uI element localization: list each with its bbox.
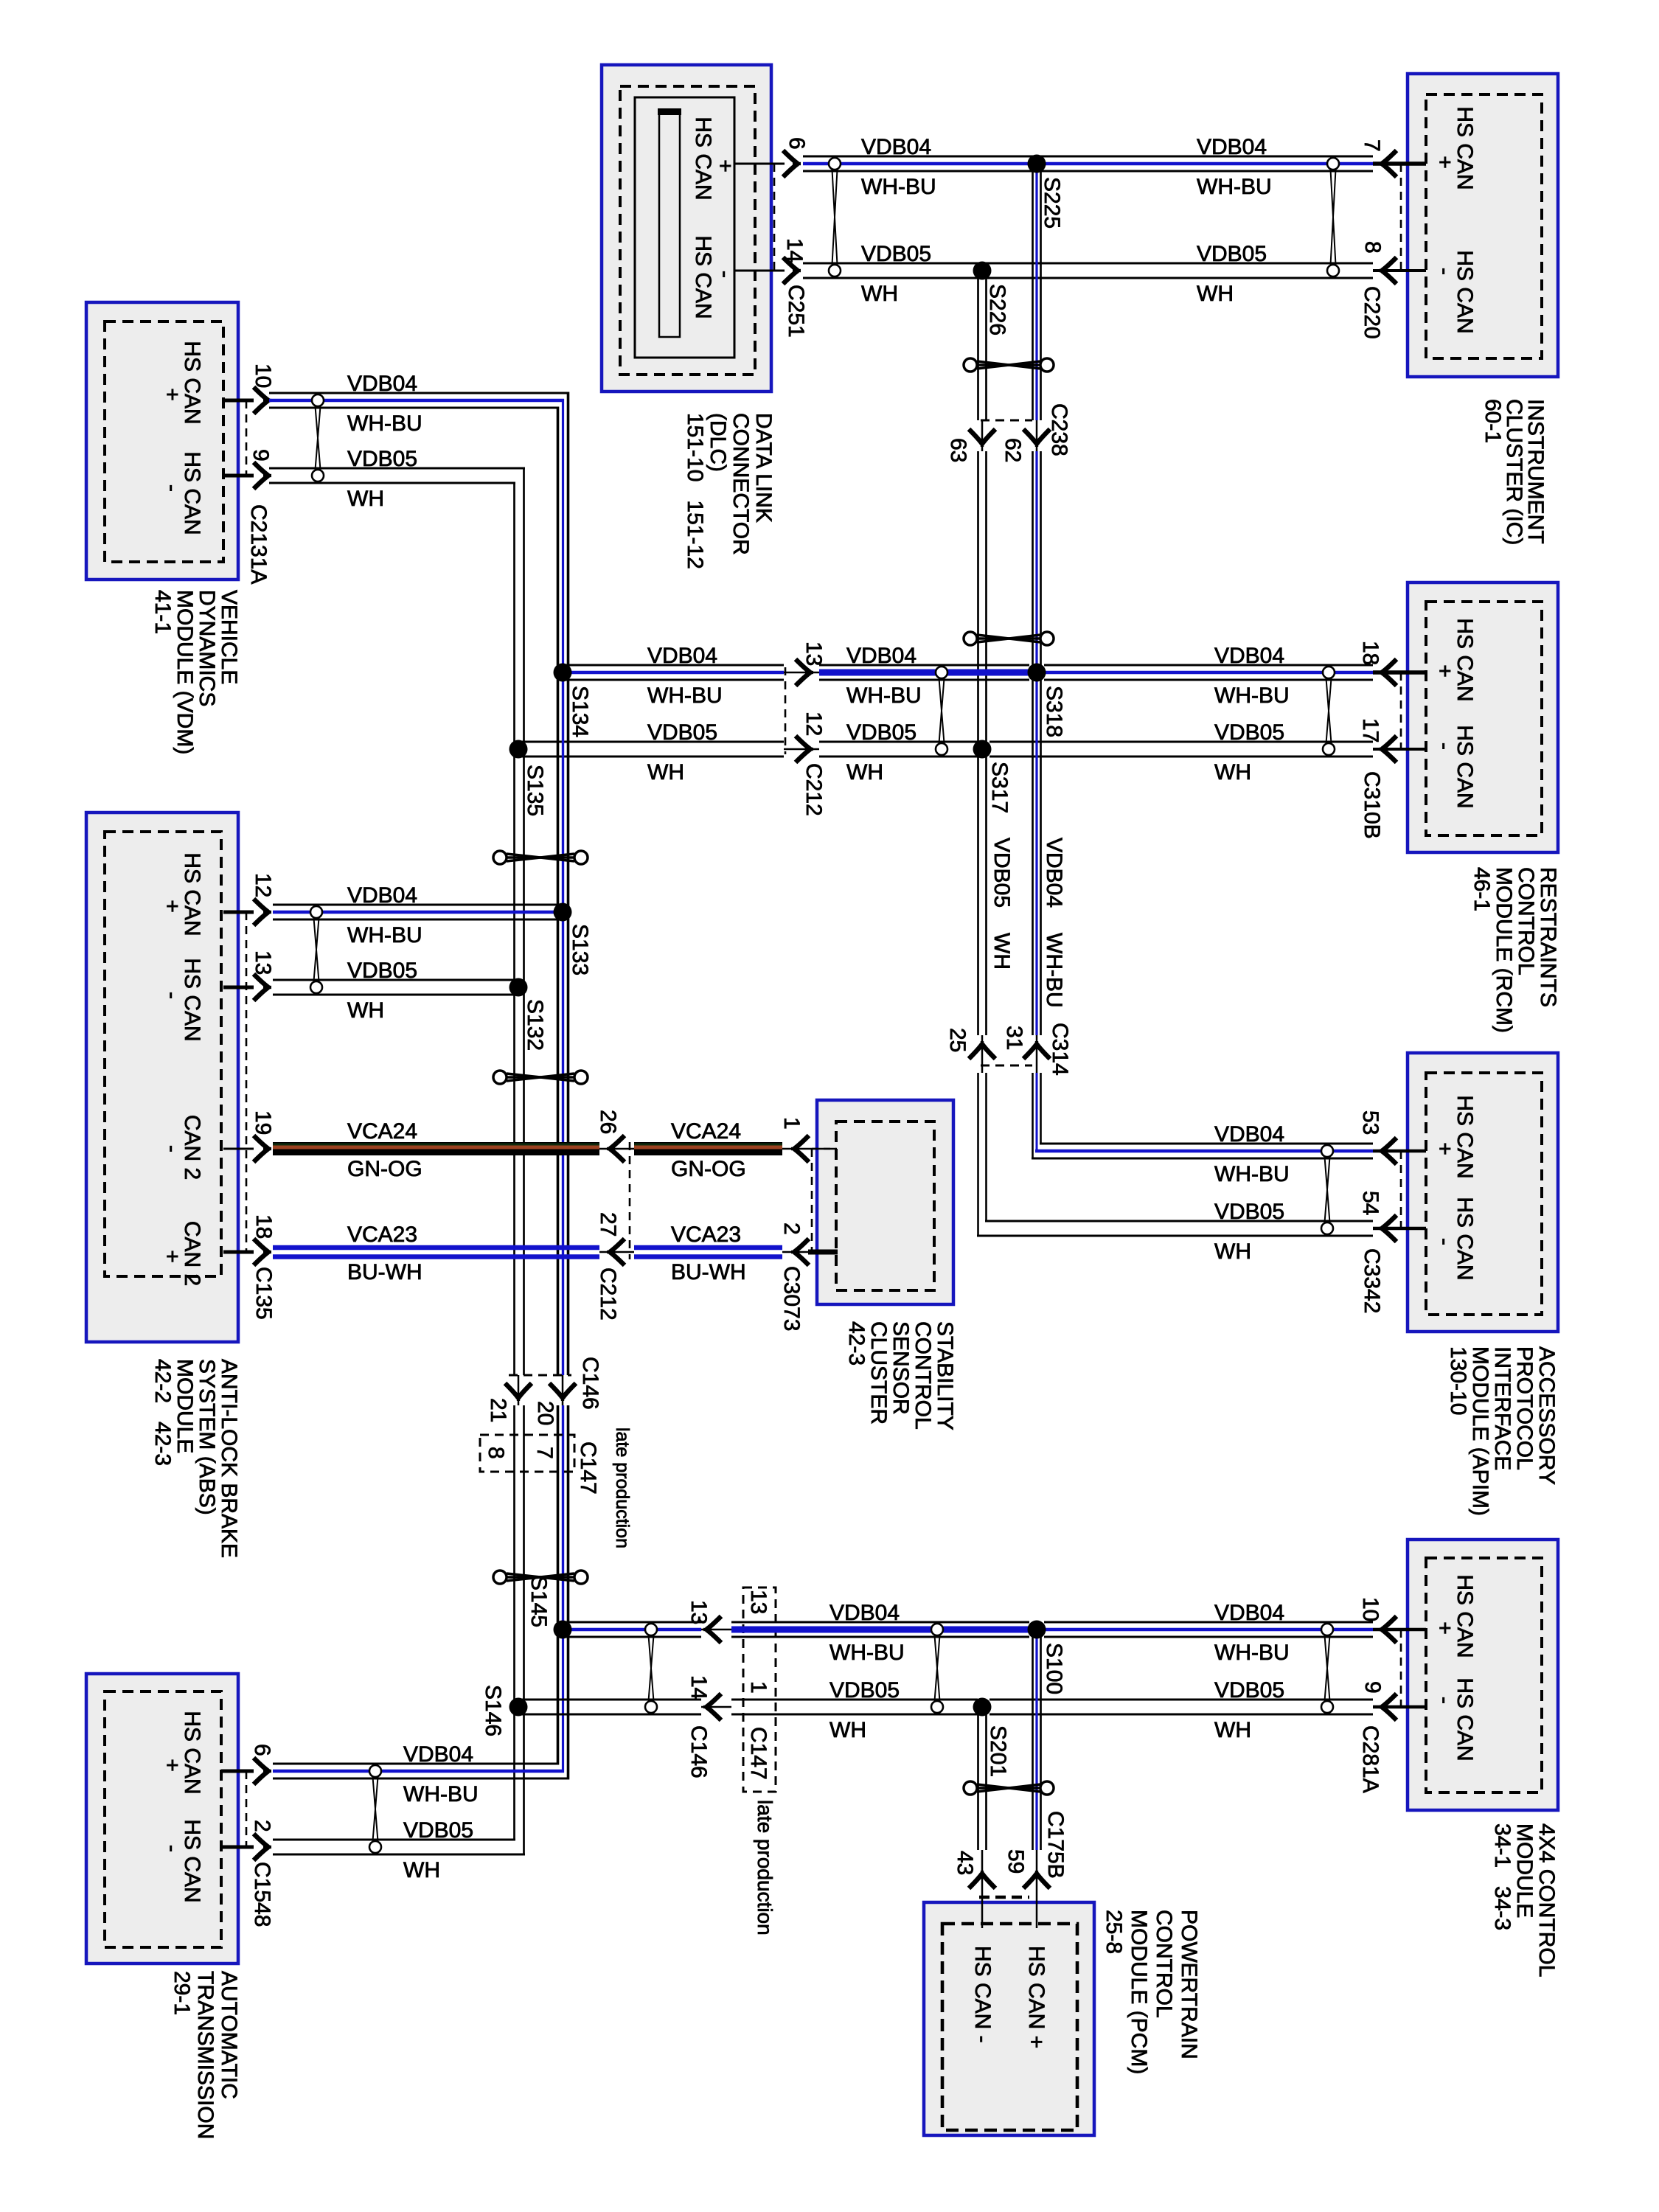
SCS pin 2 lead xyxy=(782,1251,808,1253)
wire label VDB04 WH-BU seg1 xyxy=(861,135,936,199)
connector C314 pin 31 arrow xyxy=(1023,1041,1050,1059)
VDM pin label HS CAN + xyxy=(160,341,204,424)
svg-text:RESTRAINTS: RESTRAINTS xyxy=(1536,867,1560,1007)
svg-text:BU-WH: BU-WH xyxy=(347,1260,422,1284)
svg-text:HS CAN: HS CAN xyxy=(691,116,715,200)
svg-text:WH: WH xyxy=(829,1718,866,1742)
svg-text:ACCESSORY: ACCESSORY xyxy=(1534,1346,1559,1485)
svg-text:POWERTRAIN: POWERTRAIN xyxy=(1177,1910,1201,2059)
svg-text:8: 8 xyxy=(484,1447,508,1459)
C314 pin 25 lead xyxy=(981,1035,984,1073)
AT connector dashed jogs xyxy=(221,1771,246,1847)
svg-text:VCA24: VCA24 xyxy=(347,1119,417,1144)
module box INSTRUMENT CLUSTER (IC) xyxy=(1408,74,1558,377)
svg-text:VDB05: VDB05 xyxy=(1197,242,1267,266)
svg-text:WH-BU: WH-BU xyxy=(1042,933,1066,1008)
DLC pin 6 stub xyxy=(734,163,785,165)
twisted pair symbol before S100 xyxy=(935,1635,940,1701)
ABS connector dashed line xyxy=(246,912,248,1252)
RCM pin 18 stub xyxy=(1373,670,1426,675)
svg-text:STABILITY: STABILITY xyxy=(933,1321,957,1430)
svg-text:SENSOR: SENSOR xyxy=(888,1321,913,1415)
twisted pair symbol after C251 xyxy=(832,170,838,265)
connector C146 dashed line trunk xyxy=(509,1374,571,1377)
connector C3073 pin 1 arrow xyxy=(791,1135,809,1162)
wire label VDB04 WH-BU level2 seg1 xyxy=(647,644,723,708)
APIM connector dashed jogs xyxy=(1401,1151,1426,1228)
svg-text:12: 12 xyxy=(251,873,275,897)
svg-text:-: - xyxy=(160,1145,184,1152)
connector C146 pin 20 arrow xyxy=(549,1383,576,1401)
wire VDB04 corner to APIM xyxy=(1032,1144,1373,1158)
C146 pin 13 lead xyxy=(701,1629,731,1631)
svg-text:14: 14 xyxy=(782,238,807,262)
svg-text:WH: WH xyxy=(1214,1239,1251,1264)
splice S225 xyxy=(1028,155,1046,173)
connector C146 pin 21 arrow xyxy=(505,1383,532,1401)
connector C212 pin 26 arrow xyxy=(607,1135,625,1162)
wire VDB04 WH-BU VDM to corner xyxy=(269,393,569,408)
svg-text:VDB05: VDB05 xyxy=(347,447,417,471)
C212 pin 27 lead xyxy=(599,1251,634,1253)
svg-text:C220: C220 xyxy=(1360,286,1384,339)
svg-text:25: 25 xyxy=(945,1028,970,1052)
svg-text:14: 14 xyxy=(686,1675,711,1700)
svg-text:S317: S317 xyxy=(987,762,1012,813)
wire VDB05 WH VDM to corner xyxy=(269,468,525,483)
svg-text:S100: S100 xyxy=(1042,1643,1066,1694)
svg-text:CONTROL: CONTROL xyxy=(911,1321,935,1430)
APIM pin 54 stub xyxy=(1373,1227,1426,1231)
svg-text:C251: C251 xyxy=(784,285,808,338)
svg-text:WH: WH xyxy=(403,1858,440,1882)
svg-text:VDB04: VDB04 xyxy=(861,135,931,159)
APIM pin label HS CAN - xyxy=(1433,1197,1477,1280)
svg-text:C135: C135 xyxy=(251,1267,276,1320)
splice S226 xyxy=(973,262,992,280)
svg-text:TRANSMISSION: TRANSMISSION xyxy=(193,1971,218,2139)
svg-text:WH: WH xyxy=(861,282,898,306)
svg-text:21: 21 xyxy=(486,1398,510,1422)
connector C1548 pin 6 arrow xyxy=(254,1758,271,1784)
connector C281A pin 9 arrow xyxy=(1379,1694,1397,1720)
svg-text:HS CAN: HS CAN xyxy=(180,451,204,535)
C212 pin 13 lead xyxy=(784,672,819,674)
C238 pin 63 lead xyxy=(981,420,984,451)
svg-text:S133: S133 xyxy=(568,924,592,975)
APIM pin 53 stub xyxy=(1373,1150,1426,1153)
connector C238 dashed line xyxy=(981,420,1032,422)
splice S146 xyxy=(509,1698,528,1717)
svg-text:7: 7 xyxy=(1360,139,1384,152)
svg-text:WH: WH xyxy=(846,760,883,785)
wire label VDB05 WH level3 seg1 xyxy=(829,1678,900,1742)
ABS pin 19 stub xyxy=(223,1148,254,1150)
svg-text:+: + xyxy=(1433,1621,1457,1635)
connector C314 pin 25 arrow xyxy=(969,1041,995,1059)
ABS pin 13 stub xyxy=(223,986,254,990)
svg-text:WH-BU: WH-BU xyxy=(347,923,422,947)
svg-text:6: 6 xyxy=(785,137,809,150)
wire VDB04 WH-BU trunk S133 to C146 xyxy=(557,912,560,1375)
svg-text:46-1: 46-1 xyxy=(1470,867,1494,911)
svg-text:2: 2 xyxy=(779,1222,804,1235)
svg-text:WH-BU: WH-BU xyxy=(1214,1641,1290,1665)
svg-text:PROTOCOL: PROTOCOL xyxy=(1512,1346,1537,1470)
module box ACCESSORY PROTOCOL INTERFACE MODULE (APIM) xyxy=(1408,1053,1558,1332)
svg-text:CONTROL: CONTROL xyxy=(1152,1910,1176,2018)
module box STABILITY CONTROL SENSOR CLUSTER xyxy=(817,1100,953,1304)
4X4 pin 9 stub xyxy=(1373,1705,1426,1709)
svg-text:MODULE (RCM): MODULE (RCM) xyxy=(1492,867,1516,1033)
C212 pin 12 lead xyxy=(784,748,819,751)
svg-text:S132: S132 xyxy=(523,999,547,1051)
C212 pin 26 lead xyxy=(599,1148,634,1150)
svg-text:WH: WH xyxy=(1197,282,1234,306)
wire VDB05 WH AT to corner xyxy=(273,1840,525,1854)
wire VDB04 WH-BU C146 to S100 (thick) xyxy=(731,1621,1029,1624)
connector C212 pin 13 arrow xyxy=(796,659,813,686)
svg-text:63: 63 xyxy=(946,438,970,462)
svg-text:HS CAN: HS CAN xyxy=(1453,618,1477,701)
connector C147 dashed box trunk xyxy=(480,1435,574,1472)
svg-text:-: - xyxy=(160,992,184,999)
svg-text:WH: WH xyxy=(647,760,684,785)
svg-text:GN-OG: GN-OG xyxy=(671,1157,746,1181)
ABS pin label CAN 2 + xyxy=(160,1221,204,1286)
AT module name label xyxy=(170,1971,241,2139)
4X4 module name label xyxy=(1490,1823,1559,1977)
svg-text:AUTOMATIC: AUTOMATIC xyxy=(217,1971,241,2099)
module box POWERTRAIN CONTROL MODULE (PCM) xyxy=(924,1902,1094,2135)
SCS connector dashed jogs xyxy=(812,1149,836,1252)
RCM pin 17 stub xyxy=(1373,748,1426,751)
svg-text:43: 43 xyxy=(953,1851,977,1875)
svg-text:13: 13 xyxy=(251,950,275,975)
RCM pin label HS CAN - xyxy=(1433,725,1477,808)
svg-text:C238: C238 xyxy=(1047,403,1071,456)
module box RESTRAINTS CONTROL MODULE (RCM) xyxy=(1408,582,1558,852)
wire label VDB05 WH VDM xyxy=(347,447,417,511)
wire VDB05 WH C146 to S201 xyxy=(731,1699,978,1701)
ABS pin label HS CAN + xyxy=(160,852,204,936)
DLC connector dashed line xyxy=(773,164,776,271)
AT pin label HS CAN + xyxy=(160,1711,204,1794)
ABS pin label HS CAN - xyxy=(160,958,204,1041)
svg-text:VDB04: VDB04 xyxy=(347,883,417,908)
connector C146 pin 13 arrow xyxy=(703,1616,721,1643)
connector C220 pin 7 arrow xyxy=(1379,150,1397,177)
wire VDB04 WH-BU C212 to S318 (thick) xyxy=(819,664,1029,667)
wire VDB05 WH trunk corner to S135 xyxy=(515,467,524,750)
svg-text:-: - xyxy=(1433,742,1457,750)
wire label VDB05 WH AT xyxy=(403,1818,473,1882)
svg-text:S146: S146 xyxy=(481,1685,505,1736)
splice S318 xyxy=(1028,664,1046,682)
module box DATA LINK CONNECTOR (DLC) xyxy=(602,65,771,392)
wire label VDB05 WH ABS xyxy=(347,959,417,1023)
svg-text:WH-BU: WH-BU xyxy=(861,175,936,199)
wire label VCA23 BU-WH seg1 xyxy=(347,1222,422,1284)
AT pin 6 stub xyxy=(221,1770,254,1773)
connector C251 pin 6 arrow xyxy=(783,150,801,177)
svg-text:MODULE (APIM): MODULE (APIM) xyxy=(1468,1346,1492,1516)
svg-text:late production: late production xyxy=(754,1800,776,1935)
APIM module name label xyxy=(1446,1346,1559,1516)
wire VDB04 WH-BU trunk S145 to AT corner xyxy=(558,1630,568,1780)
wire label VDB04 WH-BU AT xyxy=(403,1742,479,1806)
IC pin label HS CAN - xyxy=(1433,250,1477,333)
svg-text:+: + xyxy=(160,900,184,913)
twisted pair symbol VDM xyxy=(316,406,321,470)
svg-text:C1548: C1548 xyxy=(250,1862,274,1927)
svg-text:HS CAN: HS CAN xyxy=(1453,1677,1477,1761)
svg-text:HS CAN: HS CAN xyxy=(691,235,715,319)
svg-text:2: 2 xyxy=(250,1820,274,1832)
wire VCA24 GN-OG C212 to SCS xyxy=(634,1142,782,1155)
AT pin label HS CAN - xyxy=(160,1819,204,1902)
svg-text:VCA24: VCA24 xyxy=(671,1119,741,1144)
VDM pin label HS CAN - xyxy=(160,451,204,535)
wire VDB05 vertical C314 to corner xyxy=(978,1073,987,1237)
module box AUTOMATIC TRANSMISSION xyxy=(86,1674,238,1964)
wire label VDB04 WH-BU VDM xyxy=(347,372,422,436)
connector C2131A pin 9 arrow xyxy=(254,462,271,489)
svg-text:53: 53 xyxy=(1358,1110,1382,1135)
DLC module name label xyxy=(683,413,776,569)
svg-text:VEHICLE: VEHICLE xyxy=(217,590,241,684)
svg-text:-: - xyxy=(1433,1697,1457,1704)
connector C175B pin 59 arrow xyxy=(1023,1871,1050,1888)
svg-text:WH: WH xyxy=(990,933,1014,970)
wire label VDB04 WH-BU APIM xyxy=(1214,1122,1290,1186)
wire VDB04 WH-BU level1 DLC to IC xyxy=(803,156,1373,158)
wire VDB05 vertical C238 to S317 xyxy=(977,451,979,749)
AT pin 2 stub xyxy=(221,1846,254,1849)
svg-text:C3073: C3073 xyxy=(779,1266,804,1331)
connector C212 pin 27 arrow xyxy=(607,1239,625,1265)
svg-text:VDB05: VDB05 xyxy=(347,959,417,983)
DLC pin label HS CAN + xyxy=(691,116,737,200)
wire VDB04 WH-BU trunk C146 to S145 xyxy=(557,1405,560,1630)
svg-text:59: 59 xyxy=(1004,1849,1028,1874)
svg-text:WH-BU: WH-BU xyxy=(1214,684,1290,708)
svg-text:-: - xyxy=(1433,268,1457,275)
svg-text:18: 18 xyxy=(1358,641,1382,665)
wire VDB04 WH-BU S100 to 4X4 xyxy=(1044,1621,1373,1624)
twisted pair symbol trunk 1 xyxy=(507,854,574,861)
connector C175B pin 43 arrow xyxy=(969,1871,995,1888)
svg-text:10: 10 xyxy=(1358,1597,1382,1621)
wire label VDB04 WH-BU level3 seg2 xyxy=(1214,1601,1290,1665)
svg-text:VDB05: VDB05 xyxy=(861,242,931,266)
svg-text:C281A: C281A xyxy=(1358,1725,1382,1793)
RCM connector dashed line xyxy=(1400,672,1402,749)
wire VDB05 WH level1 DLC to IC xyxy=(803,262,1373,265)
C314 pin 31 lead xyxy=(1036,1035,1038,1073)
module box ANTI-LOCK BRAKE SYSTEM (ABS) MODULE xyxy=(86,813,238,1342)
svg-text:29-1: 29-1 xyxy=(170,1971,194,2015)
svg-text:WH-BU: WH-BU xyxy=(403,1782,479,1806)
svg-text:HS CAN: HS CAN xyxy=(1453,250,1477,333)
ABS module name label xyxy=(150,1359,241,1558)
svg-text:8: 8 xyxy=(1360,241,1385,254)
splice S201 xyxy=(973,1698,992,1717)
svg-text:S318: S318 xyxy=(1042,686,1066,737)
4X4 pin label HS CAN - xyxy=(1433,1677,1477,1761)
svg-text:VCA23: VCA23 xyxy=(671,1222,741,1247)
splice S100 xyxy=(1028,1621,1046,1639)
C175B pin 59 lead xyxy=(1036,1850,1038,1928)
twisted pair symbol before C3342 xyxy=(1325,1157,1330,1222)
svg-text:S201: S201 xyxy=(986,1725,1010,1777)
svg-text:-: - xyxy=(1433,1238,1457,1245)
connector C310B pin 17 arrow xyxy=(1379,736,1397,762)
connector C3073 dashed line xyxy=(811,1149,813,1252)
twisted pair symbol before S318 xyxy=(939,678,945,743)
wire VDB05 WH S135 to C212 xyxy=(518,741,784,743)
svg-text:C147: C147 xyxy=(576,1441,600,1495)
module box 4X4 CONTROL MODULE xyxy=(1408,1540,1558,1810)
PCM pin label HS CAN - xyxy=(970,1946,995,2043)
svg-text:-: - xyxy=(160,484,184,492)
svg-text:9: 9 xyxy=(1360,1681,1385,1694)
connector C2131A pin 10 arrow xyxy=(254,387,271,414)
svg-text:34-1 34-3: 34-1 34-3 xyxy=(1490,1823,1514,1930)
svg-text:26: 26 xyxy=(596,1110,620,1134)
connector C3073 pin 2 arrow xyxy=(791,1239,809,1265)
svg-text:10: 10 xyxy=(251,364,275,388)
svg-text:VDB04: VDB04 xyxy=(1214,1601,1284,1625)
svg-text:9: 9 xyxy=(248,449,273,462)
wire VDB05 WH ABS to S132 xyxy=(273,979,522,981)
VDM connector dashed line xyxy=(246,400,248,476)
twisted pair symbol ABS xyxy=(314,918,319,981)
svg-text:VDB05: VDB05 xyxy=(990,838,1014,908)
splice S135 xyxy=(509,740,528,759)
svg-text:WH: WH xyxy=(347,998,384,1023)
svg-text:VDB04: VDB04 xyxy=(347,372,417,396)
twisted pair symbol PCM drop xyxy=(977,1784,1040,1792)
svg-text:VDB05: VDB05 xyxy=(846,720,917,745)
svg-text:130-10: 130-10 xyxy=(1446,1346,1470,1415)
connector C281A pin 10 arrow xyxy=(1379,1616,1397,1643)
RCM connector dashed jogs xyxy=(1401,672,1426,749)
twisted pair symbol AT xyxy=(373,1777,378,1841)
twisted pair symbol trunk 2 xyxy=(507,1074,574,1081)
svg-text:S134: S134 xyxy=(568,686,592,737)
wire label VDB04 WH-BU ABS xyxy=(347,883,422,947)
svg-text:42-2 42-3: 42-2 42-3 xyxy=(150,1359,175,1466)
svg-text:C2131A: C2131A xyxy=(246,504,271,584)
svg-text:-: - xyxy=(160,1845,184,1852)
svg-text:WH: WH xyxy=(347,487,384,511)
svg-text:C3342: C3342 xyxy=(1360,1248,1384,1313)
SCS module name label xyxy=(844,1321,957,1430)
wire label VDB05 WH level2 seg2 xyxy=(846,720,917,785)
IC connector dashed jogs xyxy=(1401,164,1426,271)
svg-text:MODULE: MODULE xyxy=(173,1359,197,1453)
svg-text:DATA LINK: DATA LINK xyxy=(751,413,776,523)
svg-text:19: 19 xyxy=(251,1110,275,1135)
connector C3342 pin 54 arrow xyxy=(1379,1215,1397,1242)
svg-text:VDB05: VDB05 xyxy=(1214,720,1284,745)
svg-text:+: + xyxy=(1433,156,1457,169)
svg-text:60-1: 60-1 xyxy=(1481,399,1505,443)
wire label VCA24 GN-OG seg1 xyxy=(347,1119,422,1181)
twisted pair symbol before C281A xyxy=(1325,1635,1330,1701)
IC pin 8 stub xyxy=(1373,269,1426,272)
svg-text:WH-BU: WH-BU xyxy=(829,1641,905,1665)
DLC connector dashed jogs xyxy=(755,164,774,271)
wire VDB05 WH S146 to C146 xyxy=(518,1699,701,1701)
connector C147 dashed box level3 xyxy=(743,1587,776,1792)
svg-text:S225: S225 xyxy=(1040,177,1064,229)
svg-text:WH-BU: WH-BU xyxy=(347,411,422,436)
RCM pin label HS CAN + xyxy=(1433,618,1477,701)
connector C310B pin 18 arrow xyxy=(1379,659,1397,686)
svg-text:late production: late production xyxy=(612,1427,633,1548)
svg-text:CONTROL: CONTROL xyxy=(1514,867,1538,975)
twisted pair symbol before C220 xyxy=(1331,170,1336,265)
splice S134 xyxy=(554,664,572,682)
PCM module name label xyxy=(1102,1910,1201,2074)
wire VDB04 WH-BU AT to corner xyxy=(273,1764,569,1778)
connector C146 pin 14 arrow xyxy=(703,1694,721,1720)
wire VDB04 vertical C238 to S318 xyxy=(1032,451,1034,672)
svg-text:HS CAN: HS CAN xyxy=(180,958,204,1041)
connector C3342 pin 53 arrow xyxy=(1379,1138,1397,1164)
svg-text:VDB04: VDB04 xyxy=(647,644,717,668)
svg-text:VDB05: VDB05 xyxy=(1214,1678,1284,1703)
4X4 connector dashed line xyxy=(1400,1630,1402,1707)
connector C212 dashed line VCA xyxy=(629,1142,631,1259)
svg-text:SYSTEM (ABS): SYSTEM (ABS) xyxy=(195,1359,219,1515)
svg-text:WH-BU: WH-BU xyxy=(647,684,723,708)
svg-text:31: 31 xyxy=(1002,1026,1026,1050)
wire label VDB05 WH level2 seg1 xyxy=(647,720,717,785)
svg-text:C212: C212 xyxy=(801,763,826,816)
VDM connector dashed jogs xyxy=(223,400,246,476)
svg-text:VDB04: VDB04 xyxy=(1214,644,1284,668)
wire VCA23 BU-WH ABS to C212 xyxy=(273,1248,599,1257)
svg-text:+: + xyxy=(160,1759,184,1772)
wire VCA23 BU-WH C212 to SCS xyxy=(634,1248,782,1257)
C238 pin 62 lead xyxy=(1036,420,1038,451)
wire label VCA23 BU-WH seg2 xyxy=(671,1222,746,1284)
connector C251 pin 14 arrow xyxy=(783,257,801,284)
wire VDB05 WH C212 to S317 xyxy=(819,741,978,743)
svg-text:S226: S226 xyxy=(985,284,1009,335)
connector C314 dashed line xyxy=(981,1065,1032,1067)
connector C212 pin 12 arrow xyxy=(796,736,813,762)
svg-text:C146: C146 xyxy=(578,1357,602,1410)
svg-text:-: - xyxy=(713,271,737,278)
svg-text:18: 18 xyxy=(251,1214,276,1239)
APIM connector dashed line xyxy=(1400,1151,1402,1228)
svg-text:C146: C146 xyxy=(686,1725,711,1778)
svg-text:+: + xyxy=(1433,664,1457,678)
IC pin label HS CAN + xyxy=(1433,106,1477,189)
svg-text:WH: WH xyxy=(1214,1718,1251,1742)
C146 pin 21 lead xyxy=(518,1375,520,1405)
wire VDB04 WH-BU trunk corner to S134 xyxy=(558,392,568,673)
svg-text:DYNAMICS: DYNAMICS xyxy=(195,590,219,706)
SCS pin 2 stub xyxy=(808,1250,838,1255)
IC connector dashed line xyxy=(1400,164,1402,271)
twisted pair symbol level3 left xyxy=(649,1635,654,1701)
twisted pair symbol upper drop xyxy=(977,361,1040,369)
